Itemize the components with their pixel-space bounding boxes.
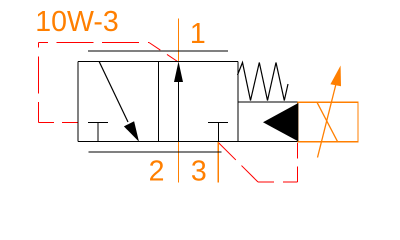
valve body bottom edge (extends under pilot) (78, 141, 297, 143)
left position arrow head (124, 121, 139, 142)
svg-text:10W-3: 10W-3 (35, 6, 118, 38)
dashed leader top horizontal (39, 42, 150, 44)
dashed leader diagonal to port 1 (149, 43, 178, 63)
right position blocked port T (208, 121, 228, 123)
left position arrow line (99, 61, 128, 122)
spring (238, 63, 289, 101)
valve body left edge (77, 61, 79, 141)
pilot triangle (263, 103, 298, 141)
line below valve (89, 151, 222, 153)
valve body top edge (78, 60, 238, 62)
valve position divider (158, 61, 160, 141)
svg-text:3: 3 (191, 156, 207, 188)
dashed leader right vertical (297, 143, 299, 183)
adjustment arrow line (318, 76, 339, 158)
svg-text:2: 2 (149, 156, 165, 188)
right position arrow stem (178, 80, 180, 142)
left position blocked port T (88, 121, 108, 123)
dashed leader left vertical (38, 43, 40, 123)
line above valve (88, 50, 228, 52)
adjustment arrow head (330, 66, 341, 87)
dashed leader bottom horizontal (39, 121, 79, 123)
port 2 line (178, 142, 180, 182)
port 3 line (217, 142, 219, 182)
solenoid box (orange) (298, 102, 358, 141)
valve body right edge (237, 61, 239, 141)
solenoid diagonal (317, 102, 338, 141)
pilot top line (238, 101, 297, 103)
right position arrow head (174, 62, 183, 83)
dashed leader diagonal bottom right (219, 143, 258, 182)
dashed leader bottom-right horizontal (258, 181, 298, 183)
svg-text:1: 1 (190, 18, 206, 50)
port 1 line (178, 19, 180, 62)
